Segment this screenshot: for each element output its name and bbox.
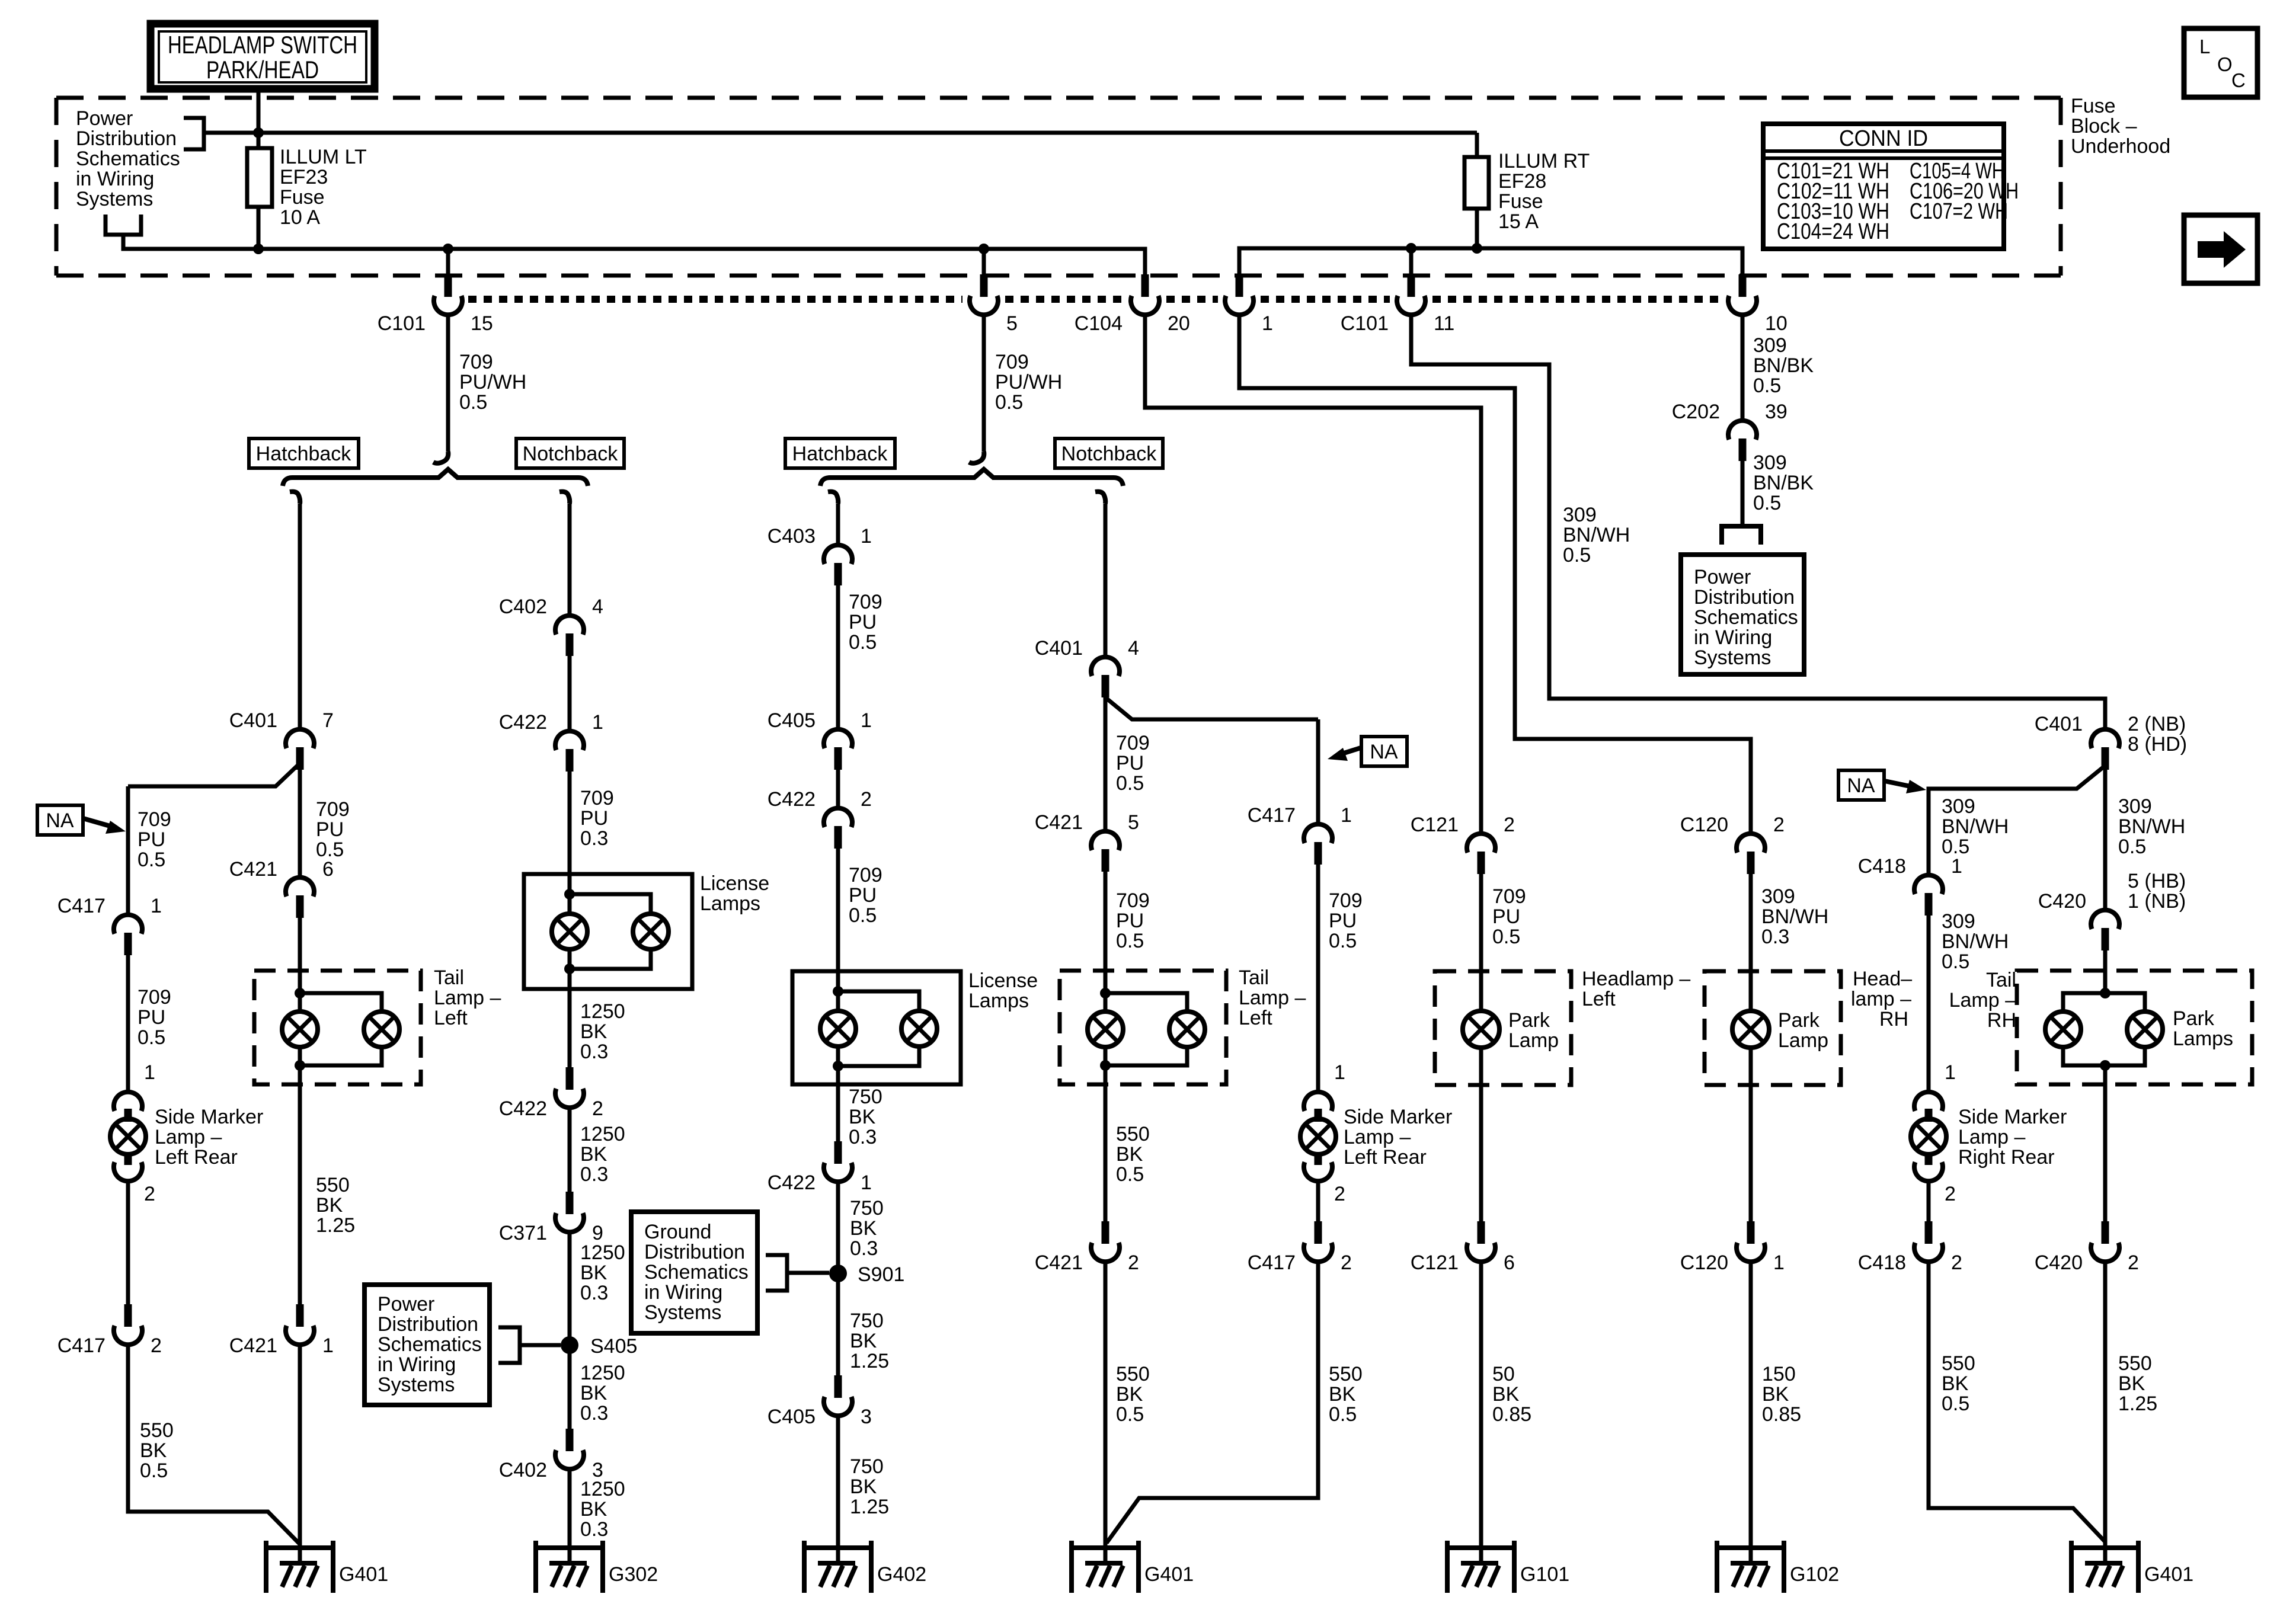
svg-text:Left Rear: Left Rear — [1344, 1146, 1427, 1169]
svg-text:5: 5 — [1128, 811, 1139, 834]
svg-text:Side Marker: Side Marker — [1344, 1106, 1452, 1128]
fuse EF23 — [247, 148, 272, 207]
svg-text:750: 750 — [850, 1455, 884, 1478]
svg-text:Distribution: Distribution — [76, 127, 177, 150]
svg-text:550: 550 — [2118, 1352, 2152, 1375]
svg-text:C420: C420 — [2038, 890, 2086, 913]
wire license 2 branch bottom — [838, 1046, 919, 1066]
connector C422 pin 1b — [834, 1141, 842, 1164]
arrow box — [2184, 215, 2257, 283]
svg-text:709: 709 — [580, 787, 614, 809]
NA arrow 2 — [1338, 748, 1361, 755]
wire C401-2/8 down — [2103, 770, 2108, 910]
wire C417-2 to ground G401 2 — [1107, 1262, 1318, 1543]
svg-text:1: 1 — [861, 1172, 872, 1194]
svg-text:709: 709 — [849, 864, 882, 886]
svg-text:BK: BK — [1116, 1383, 1143, 1406]
wire C418-2 to ground G401 3 — [1929, 1262, 2105, 1542]
connector C104 pin 1 — [1236, 274, 1243, 297]
ground G102 — [1715, 1541, 1719, 1593]
svg-text:1250: 1250 — [580, 1123, 625, 1145]
wire branch to right side marker column — [1105, 697, 1318, 719]
node tail2 branch top — [1100, 988, 1111, 998]
svg-text:Power: Power — [76, 107, 133, 130]
svg-text:Systems: Systems — [378, 1374, 455, 1396]
svg-text:1.25: 1.25 — [850, 1350, 889, 1372]
NA arrow 3 — [1885, 781, 1913, 787]
svg-text:Lamp: Lamp — [1778, 1029, 1828, 1052]
wire lamp branch bottom — [300, 1047, 382, 1065]
svg-text:O: O — [2217, 53, 2233, 75]
svg-text:Lamp –: Lamp – — [1239, 987, 1306, 1009]
svg-text:in Wiring: in Wiring — [644, 1281, 722, 1304]
svg-text:0.5: 0.5 — [1329, 930, 1357, 952]
wire C101-15 drop — [446, 249, 450, 276]
svg-text:Lamp –: Lamp – — [1949, 989, 2016, 1012]
svg-text:S901: S901 — [858, 1263, 904, 1286]
connector C402 pin 4 — [555, 616, 584, 635]
svg-text:0.3: 0.3 — [580, 1402, 608, 1425]
wire C120-1 to ground — [1749, 1262, 1753, 1548]
connector C401 pin 7 — [286, 729, 314, 748]
svg-text:Tail: Tail — [1986, 969, 2016, 991]
svg-text:BK: BK — [580, 1143, 607, 1166]
wire notchback branch 2 start — [1095, 492, 1105, 504]
svg-text:550: 550 — [1116, 1123, 1150, 1145]
svg-text:309: 309 — [1761, 885, 1795, 908]
svg-text:Lamps: Lamps — [2173, 1028, 2233, 1050]
svg-text:Right Rear: Right Rear — [1958, 1146, 2055, 1169]
svg-text:BK: BK — [850, 1475, 877, 1498]
svg-text:C371: C371 — [499, 1222, 547, 1244]
svg-text:50: 50 — [1492, 1363, 1515, 1385]
svg-text:550: 550 — [140, 1419, 174, 1442]
svg-text:20: 20 — [1168, 312, 1190, 335]
svg-text:39: 39 — [1765, 401, 1787, 423]
svg-text:Systems: Systems — [644, 1301, 721, 1324]
license lamp bulb 2 — [633, 914, 669, 949]
svg-text:PU: PU — [580, 807, 608, 830]
svg-text:709: 709 — [137, 808, 171, 831]
svg-text:RH: RH — [1987, 1009, 2016, 1032]
Hatchback tag box 2 — [785, 438, 895, 468]
splice S405 — [561, 1336, 578, 1354]
wire C421-5 down — [1104, 872, 1108, 993]
svg-text:2: 2 — [1945, 1183, 1956, 1205]
svg-text:BN/WH: BN/WH — [1761, 905, 1828, 928]
svg-text:PU: PU — [137, 1006, 165, 1029]
svg-text:C401: C401 — [2035, 713, 2083, 735]
node tail2 branch bottom — [1100, 1060, 1111, 1071]
svg-text:1250: 1250 — [580, 1241, 625, 1264]
LOC box — [2184, 28, 2257, 97]
svg-text:1250: 1250 — [580, 1362, 625, 1384]
svg-text:BN/BK: BN/BK — [1753, 472, 1814, 494]
svg-text:11: 11 — [1434, 312, 1454, 335]
node tail RH branch top — [2100, 988, 2110, 998]
svg-text:Park: Park — [1508, 1009, 1550, 1032]
svg-text:Systems: Systems — [76, 188, 153, 210]
svg-text:2: 2 — [592, 1097, 603, 1120]
svg-text:C421: C421 — [1035, 811, 1083, 834]
svg-text:2: 2 — [1334, 1183, 1345, 1205]
svg-text:License: License — [700, 872, 769, 895]
svg-text:ILLUM LT: ILLUM LT — [280, 146, 367, 168]
svg-text:C121: C121 — [1411, 1251, 1459, 1274]
node C101-15 junction — [443, 244, 453, 254]
svg-text:BK: BK — [1942, 1372, 1969, 1395]
wire license branch — [570, 894, 651, 914]
lower-left pickup bracket — [105, 215, 141, 235]
lamp bulb — [1911, 1119, 1946, 1154]
node license 2 branch bottom — [833, 1061, 843, 1071]
license lamp bulb 1 — [552, 914, 587, 949]
node C101-5 junction — [978, 244, 989, 254]
wire notchback branch start — [559, 492, 570, 504]
connector C421 pin 6 — [286, 878, 314, 897]
connector C121 pin 2 — [1467, 834, 1495, 853]
node license 2 branch top — [833, 986, 843, 997]
Tail Lamp - RH dashed box — [2017, 971, 2252, 1084]
svg-text:EF28: EF28 — [1498, 170, 1546, 193]
connector C101 pin 15 — [445, 274, 452, 297]
svg-text:BK: BK — [850, 1330, 877, 1352]
wire C202 down — [1741, 461, 1745, 526]
svg-text:BK: BK — [316, 1194, 343, 1217]
connector C422 pin 2 — [566, 1067, 574, 1090]
svg-text:4: 4 — [1128, 637, 1139, 660]
wire C101-15 to split — [446, 315, 450, 452]
connector C421 pin 1 — [296, 1304, 304, 1327]
svg-text:PU: PU — [849, 611, 877, 633]
svg-text:C417: C417 — [57, 895, 105, 917]
svg-text:PU: PU — [1116, 910, 1144, 932]
wire column 1 down — [126, 786, 130, 915]
wire C101-11 drop — [1409, 248, 1414, 276]
upper bus wire — [204, 131, 1477, 135]
license lamp bulb 4 — [901, 1011, 937, 1046]
svg-text:0.5: 0.5 — [1942, 1393, 1969, 1415]
NA arrow — [83, 818, 116, 828]
svg-text:C418: C418 — [1858, 855, 1906, 878]
svg-text:0.5: 0.5 — [1329, 1403, 1357, 1426]
svg-text:750: 750 — [850, 1197, 884, 1219]
svg-text:309: 309 — [1563, 504, 1597, 526]
node fuse EF23 bottom junction — [253, 244, 264, 254]
svg-text:Lamp –: Lamp – — [1344, 1126, 1411, 1148]
svg-text:Lamp: Lamp — [1508, 1029, 1559, 1052]
park lamp left bulb — [1463, 1011, 1499, 1048]
svg-text:Power: Power — [378, 1293, 434, 1315]
splice S901 — [829, 1265, 847, 1282]
Power Distribution reference box (C202) — [1681, 555, 1804, 674]
svg-text:1: 1 — [861, 709, 872, 732]
connector C417 pin 2 — [124, 1304, 132, 1327]
svg-text:BN/WH: BN/WH — [1563, 524, 1630, 546]
svg-text:Fuse: Fuse — [2071, 95, 2116, 117]
NA box 3 — [1838, 770, 1884, 800]
svg-text:NA: NA — [1847, 774, 1875, 797]
svg-text:G101: G101 — [1520, 1563, 1569, 1586]
svg-text:Lamp –: Lamp – — [434, 987, 501, 1009]
svg-text:Distribution: Distribution — [644, 1241, 745, 1263]
svg-text:C120: C120 — [1680, 1251, 1728, 1274]
wire lamp branch — [300, 993, 382, 1012]
tail lamp left bulb 1 — [282, 1012, 318, 1047]
svg-text:C401: C401 — [1035, 637, 1083, 660]
svg-text:150: 150 — [1762, 1363, 1796, 1385]
wire C421-2 to ground — [1104, 1262, 1108, 1548]
wire hatchback branch start — [290, 492, 300, 504]
svg-text:C101: C101 — [1341, 312, 1389, 335]
svg-text:C202: C202 — [1672, 401, 1720, 423]
svg-text:G302: G302 — [609, 1563, 658, 1586]
arrow symbol — [2198, 241, 2225, 258]
svg-text:G401: G401 — [2144, 1563, 2193, 1586]
svg-text:S405: S405 — [590, 1335, 637, 1358]
headlamp switch box — [151, 24, 375, 89]
svg-text:309: 309 — [1753, 334, 1787, 357]
svg-text:5 (HB): 5 (HB) — [2128, 870, 2186, 892]
svg-text:2: 2 — [151, 1334, 162, 1357]
svg-text:C422: C422 — [768, 788, 816, 811]
connector C120 pin 2 — [1737, 834, 1765, 853]
svg-text:Fuse: Fuse — [1498, 190, 1543, 213]
svg-text:550: 550 — [316, 1174, 350, 1196]
svg-text:709: 709 — [316, 798, 350, 821]
connector C121 pin 6 — [1478, 1221, 1485, 1244]
svg-text:2: 2 — [1951, 1251, 1962, 1274]
svg-text:1: 1 — [592, 711, 603, 734]
svg-text:0.3: 0.3 — [580, 1041, 608, 1063]
tail lamp bulb 2 — [1169, 1012, 1205, 1047]
wire C401-4 down — [1104, 697, 1108, 831]
svg-text:BN/WH: BN/WH — [1942, 815, 2009, 838]
svg-text:Left: Left — [1582, 988, 1616, 1010]
connector C420 pin 2 — [2102, 1221, 2109, 1244]
svg-text:L: L — [2199, 36, 2210, 57]
svg-text:3: 3 — [861, 1406, 872, 1428]
svg-text:Headlamp –: Headlamp – — [1582, 968, 1690, 990]
svg-text:0.3: 0.3 — [1761, 926, 1789, 948]
wire bracket to lower bus — [123, 235, 1145, 276]
svg-text:1: 1 — [861, 525, 872, 548]
wire tail2 branch bottom — [1105, 1047, 1187, 1065]
wire conn10 to C202 — [1741, 315, 1745, 421]
svg-text:2: 2 — [2128, 1251, 2139, 1274]
wire park lamp down — [1479, 1048, 1483, 1221]
svg-text:309: 309 — [2118, 795, 2152, 818]
wire C417-1 down — [1316, 865, 1320, 1092]
svg-text:309: 309 — [1753, 452, 1787, 474]
svg-text:Head–: Head– — [1853, 968, 1912, 990]
wire branch to left side marker column — [128, 763, 300, 786]
svg-text:15 A: 15 A — [1498, 210, 1539, 233]
svg-text:1: 1 — [1773, 1251, 1785, 1274]
svg-text:Systems: Systems — [1694, 646, 1771, 669]
svg-text:2: 2 — [861, 788, 872, 811]
svg-text:C422: C422 — [768, 1172, 816, 1194]
svg-text:1: 1 — [1945, 1061, 1956, 1084]
svg-text:Left: Left — [434, 1007, 468, 1029]
wire C121-2 down — [1479, 874, 1483, 1012]
svg-text:C417: C417 — [57, 1334, 105, 1357]
svg-text:0.5: 0.5 — [1116, 1403, 1144, 1426]
CONN ID table — [1763, 124, 2004, 249]
svg-text:C418: C418 — [1858, 1251, 1906, 1274]
svg-text:2: 2 — [1773, 814, 1785, 836]
svg-text:PU/WH: PU/WH — [459, 371, 526, 393]
Headlamp - RH dashed box — [1705, 971, 1841, 1085]
connector C402 pin 3 — [566, 1429, 574, 1451]
svg-text:0.3: 0.3 — [580, 1518, 608, 1541]
connector C401 pin 2/8 — [2091, 729, 2119, 748]
svg-text:550: 550 — [1116, 1363, 1150, 1385]
svg-text:Hatchback: Hatchback — [792, 443, 888, 465]
svg-text:1.25: 1.25 — [316, 1214, 355, 1237]
wire side marker 2 to C417-2 — [1316, 1181, 1320, 1221]
wire license branch bottom — [570, 949, 651, 969]
svg-text:C417: C417 — [1248, 1251, 1296, 1274]
svg-text:0.85: 0.85 — [1492, 1403, 1531, 1426]
svg-text:Side Marker: Side Marker — [1958, 1106, 2067, 1128]
node fuse EF23 top junction — [253, 127, 264, 138]
off-page bracket — [1722, 526, 1761, 545]
wire C104-20 to C121-2 — [1145, 315, 1481, 834]
svg-text:Notchback: Notchback — [523, 443, 619, 465]
wire C417-2 to ground G401 — [128, 1345, 300, 1544]
wire C371-9 to S405 — [568, 1232, 572, 1437]
svg-text:10 A: 10 A — [280, 206, 320, 229]
svg-text:C417: C417 — [1248, 804, 1296, 827]
Tail Lamp - Left dashed box 1 — [254, 971, 421, 1084]
connector C405 pin 3 — [834, 1375, 842, 1398]
svg-text:PU: PU — [1116, 752, 1144, 774]
node lamp branch top — [295, 988, 305, 998]
svg-text:Lamps: Lamps — [700, 892, 760, 915]
connector C101 pin 11 — [1408, 274, 1415, 297]
Notchback tag box 2 — [1055, 438, 1163, 468]
svg-text:PU: PU — [1492, 905, 1520, 928]
wire C401-2/8 split to side marker right — [1929, 766, 2105, 875]
wire C405-3 to ground — [836, 1416, 840, 1548]
wire C402-4 down — [568, 656, 572, 731]
svg-text:Notchback: Notchback — [1061, 443, 1157, 465]
svg-text:0.5: 0.5 — [1563, 544, 1591, 566]
ground G401 right — [2069, 1541, 2074, 1593]
node tail RH branch bottom — [2100, 1060, 2110, 1071]
node fuse EF28 bottom junction — [1472, 243, 1482, 254]
connector C405 pin 1 — [824, 729, 852, 748]
svg-text:C421: C421 — [229, 858, 277, 881]
svg-text:Distribution: Distribution — [1694, 586, 1795, 609]
svg-text:709: 709 — [1329, 889, 1363, 912]
Headlamp - Left dashed box — [1435, 971, 1571, 1085]
node lamp branch bottom — [295, 1060, 305, 1071]
svg-text:BK: BK — [1762, 1383, 1789, 1406]
wire C417-1 down — [126, 955, 130, 1092]
svg-text:1250: 1250 — [580, 1478, 625, 1500]
svg-text:1250: 1250 — [580, 1000, 625, 1023]
svg-text:1: 1 — [322, 1334, 334, 1357]
svg-text:C: C — [2231, 69, 2246, 91]
svg-text:Lamp –: Lamp – — [1958, 1126, 2025, 1148]
svg-text:0.3: 0.3 — [580, 1163, 608, 1186]
connector C421 pin 2 — [1102, 1221, 1109, 1244]
svg-text:0.5: 0.5 — [1116, 772, 1144, 795]
svg-text:1.25: 1.25 — [850, 1496, 889, 1518]
svg-text:309: 309 — [1942, 910, 1975, 933]
svg-text:1: 1 — [1341, 804, 1352, 827]
wire C405-1 down — [836, 770, 840, 808]
svg-text:750: 750 — [850, 1310, 884, 1332]
svg-text:C101: C101 — [378, 312, 426, 335]
node C101-11 junction — [1406, 243, 1416, 254]
ground G402 — [802, 1541, 807, 1593]
svg-text:15: 15 — [471, 312, 493, 335]
wire C422-1 to S901 — [836, 1182, 840, 1375]
fuse block dashed border — [56, 96, 2061, 100]
svg-text:Left Rear: Left Rear — [155, 1146, 238, 1169]
svg-text:1: 1 — [1262, 312, 1273, 335]
wire license 2 branch — [838, 991, 919, 1011]
svg-text:709: 709 — [1116, 732, 1150, 754]
svg-text:2: 2 — [1504, 814, 1515, 836]
svg-text:0.3: 0.3 — [580, 827, 608, 850]
wire park lamp RH down — [1749, 1048, 1753, 1221]
connector C417 pin 1 — [114, 915, 142, 934]
svg-text:BN/WH: BN/WH — [1942, 930, 2009, 953]
connector C403 pin 1 — [824, 545, 852, 564]
wire headlamp switch to fuse EF23 — [257, 89, 261, 148]
node license branch bottom — [564, 964, 575, 974]
wire tail lamp to C421-1 — [298, 1047, 302, 1304]
wire license lamps down — [568, 949, 572, 1067]
svg-text:Schematics: Schematics — [76, 148, 180, 170]
svg-text:709: 709 — [459, 351, 493, 373]
License Lamps box 2 — [792, 971, 961, 1084]
wire C402-3 to ground — [568, 1469, 572, 1548]
svg-text:PARK/HEAD: PARK/HEAD — [206, 56, 319, 84]
wire C420 down — [2103, 950, 2108, 993]
svg-text:RH: RH — [1879, 1008, 1908, 1030]
park lamps RH bulb 2 — [2127, 1012, 2163, 1047]
svg-text:C120: C120 — [1680, 814, 1728, 836]
Power Distribution reference box (S405) — [364, 1285, 490, 1405]
lower bus right segment — [1239, 248, 1742, 276]
wire C422-2 to C371-9 — [568, 1108, 572, 1192]
svg-text:C422: C422 — [499, 1097, 547, 1120]
wire C421-6 down — [298, 918, 302, 993]
svg-text:in Wiring: in Wiring — [1694, 626, 1772, 649]
connector C422 pin 1 — [555, 731, 584, 750]
svg-text:5: 5 — [1006, 312, 1018, 335]
svg-text:1: 1 — [151, 895, 162, 917]
connector C401 pin 4 — [1091, 657, 1120, 676]
connector C420 pins 5/1 — [2091, 910, 2119, 929]
svg-text:NA: NA — [46, 809, 74, 832]
svg-text:C402: C402 — [499, 1459, 547, 1481]
svg-text:2: 2 — [1128, 1251, 1139, 1274]
park lamps RH bulb 1 — [2045, 1012, 2081, 1047]
Hatchback tag box 1 — [249, 438, 359, 468]
bracket S405 — [498, 1327, 520, 1363]
svg-text:1.25: 1.25 — [2118, 1393, 2157, 1415]
wire C418-1 down — [1927, 916, 1931, 1092]
svg-text:10: 10 — [1765, 312, 1787, 335]
wire C421-1 to ground — [298, 1345, 302, 1548]
wire C420-2 to ground — [2103, 1262, 2108, 1548]
